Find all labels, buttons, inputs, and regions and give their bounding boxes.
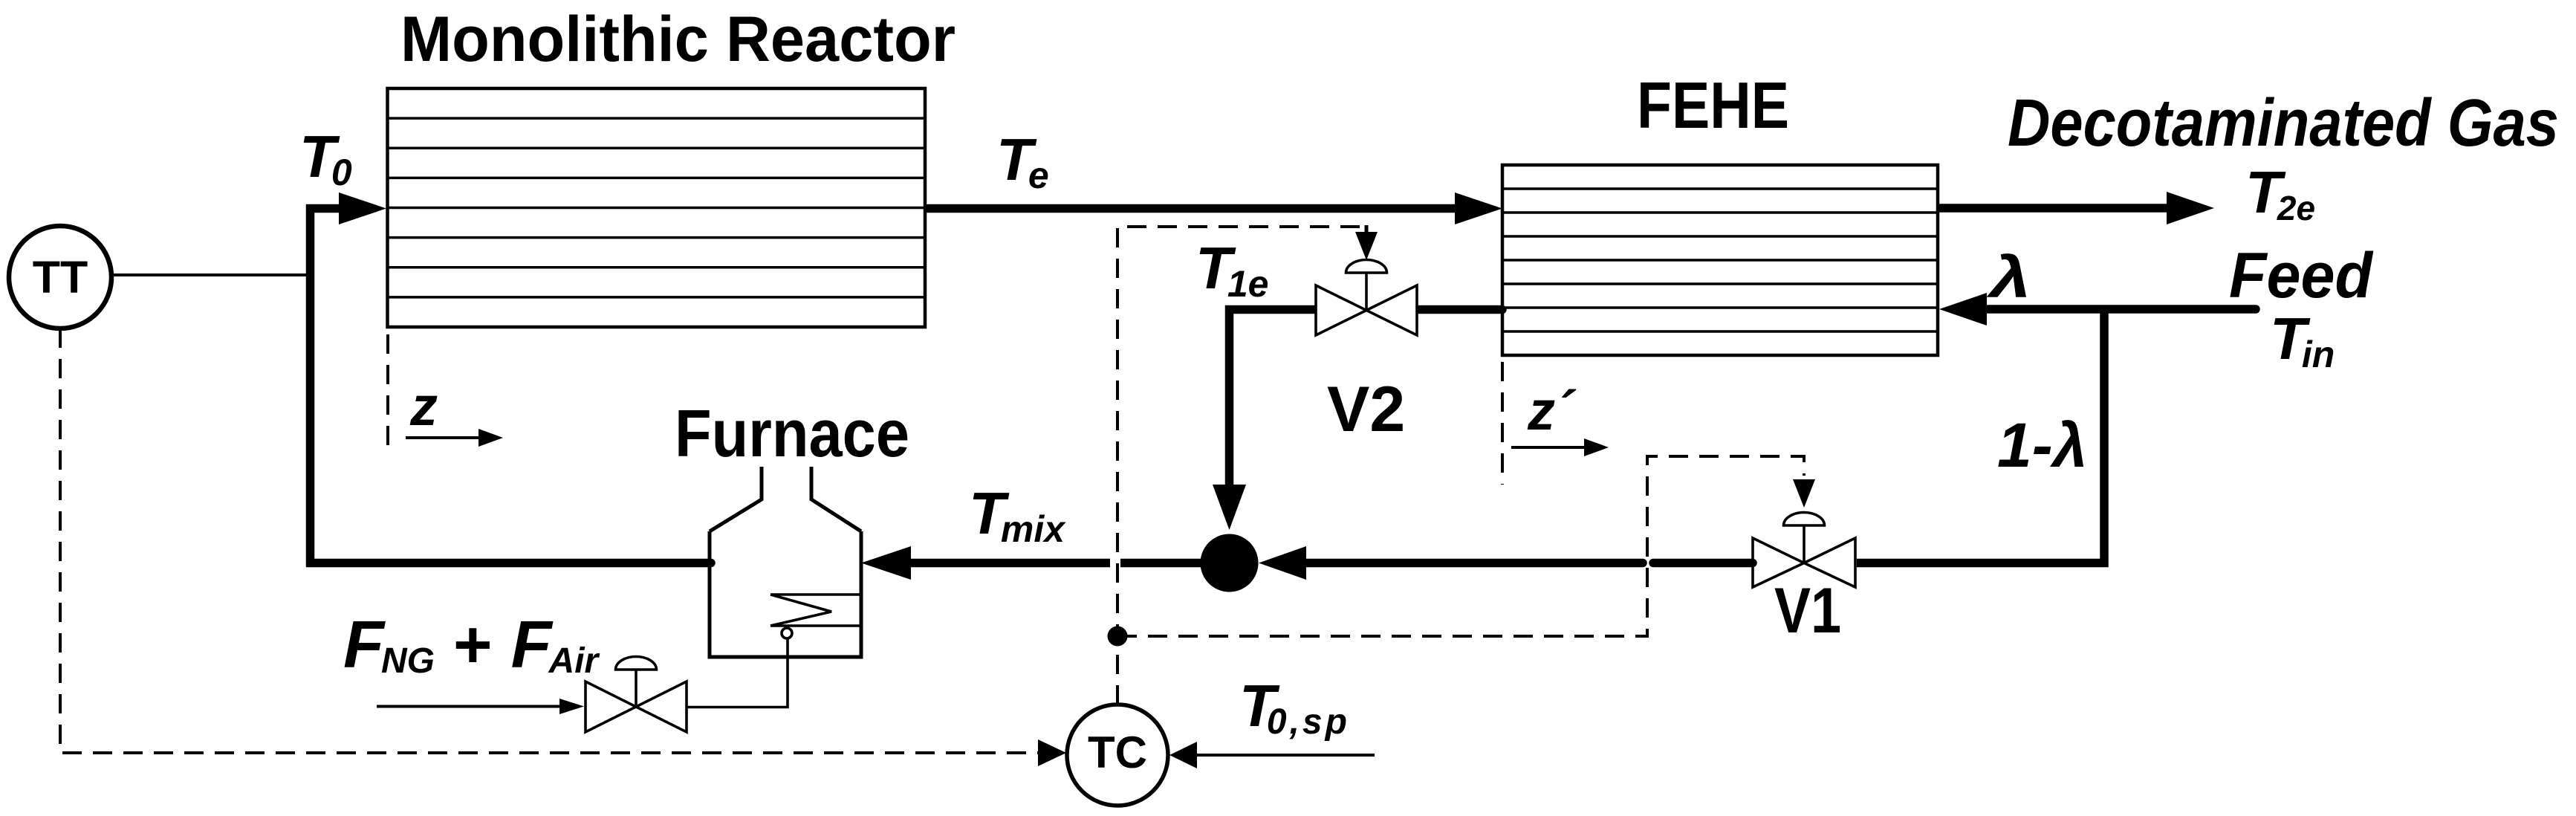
svg-text:V2: V2 — [1327, 374, 1405, 445]
valve V1 — [1753, 513, 1855, 588]
reactor Monolithic Reactor vessel — [388, 88, 926, 327]
svg-text:z´: z´ — [1527, 380, 1577, 441]
arrowhead into mix node from V1 — [1259, 546, 1306, 580]
furnace outline — [710, 467, 861, 657]
arrowhead down into mix node — [1213, 485, 1246, 530]
wire setpoint arrow into TC — [1197, 754, 1375, 757]
arrowhead Te into FEHE — [1455, 192, 1502, 224]
signal TC to V2 (dashed) — [1117, 227, 1366, 705]
signal junction node — [1108, 626, 1128, 647]
fuel feed arrow — [377, 705, 561, 708]
instrument TT — [9, 226, 111, 328]
FEHE vessel — [1502, 165, 1938, 355]
svg-text:TC: TC — [1088, 728, 1147, 777]
wire Te pipe reactor to FEHE — [928, 204, 1456, 213]
fuel line valve to furnace coil — [687, 638, 788, 707]
fuel valve — [585, 657, 687, 733]
svg-text:TT: TT — [33, 252, 88, 302]
wire mix return pipe (furnace out, up, into reactor) — [311, 209, 712, 563]
arrowhead onto V1 actuator — [1793, 479, 1815, 508]
signal TT to TC (dashed) — [60, 328, 1039, 753]
arrowhead T0 into reactor — [339, 192, 386, 224]
wire T2e decontaminated gas outlet — [1941, 204, 2168, 213]
svg-text:Decotaminated Gas: Decotaminated Gas — [2008, 86, 2559, 161]
z arrow — [406, 436, 480, 439]
valve V2 — [1316, 260, 1417, 336]
wire Tmix from mix node to furnace — [909, 559, 1201, 568]
wire T1e from FEHE to V2 stub — [1414, 305, 1502, 314]
z prime arrow — [1511, 446, 1586, 449]
svg-text:FEHE: FEHE — [1637, 68, 1789, 142]
wire V2 to mix node (corner down) — [1230, 310, 1320, 487]
svg-text:V1: V1 — [1774, 575, 1841, 647]
z axis dashed — [386, 334, 389, 450]
svg-text:Feed: Feed — [2229, 240, 2373, 311]
wire 1-lambda branch — [1857, 309, 2104, 563]
wire V1 to mix node — [1305, 559, 1753, 568]
signal junction to V1 (dashed) — [1117, 456, 1804, 636]
arrowhead onto V2 actuator — [1365, 225, 1369, 234]
svg-text:z: z — [409, 375, 438, 437]
instrument TC — [1067, 705, 1168, 806]
wire feed inlet — [1988, 305, 2256, 314]
arrowhead into TC — [1038, 739, 1066, 766]
arrowhead lambda into FEHE — [1939, 293, 1987, 326]
svg-text:Monolithic Reactor: Monolithic Reactor — [400, 4, 956, 75]
svg-text:λ: λ — [1985, 245, 2031, 309]
mixing node — [1201, 534, 1259, 592]
svg-text:1-λ: 1-λ — [1997, 410, 2087, 480]
arrowhead Tmix into furnace — [861, 546, 911, 580]
svg-text:Furnace: Furnace — [675, 397, 909, 471]
furnace coil — [770, 595, 861, 638]
wire TT tap line — [111, 273, 308, 276]
arrowhead T2e — [2167, 192, 2214, 224]
z prime axis dashed — [1501, 362, 1504, 485]
